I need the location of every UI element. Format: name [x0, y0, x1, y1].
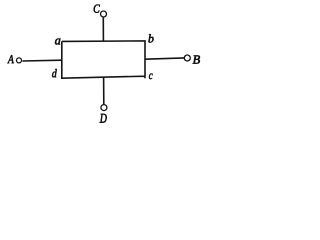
- terminal A circle: [17, 58, 22, 63]
- node C label: [94, 5, 100, 13]
- terminal C circle: [101, 11, 107, 17]
- wire A lead: [22, 59, 61, 62]
- node d label: [52, 69, 57, 77]
- terminal D circle: [101, 105, 107, 111]
- node A label: [7, 55, 14, 63]
- node b label: [148, 34, 153, 42]
- node B label: [193, 55, 200, 63]
- node c label: [149, 74, 153, 80]
- node D label: [100, 114, 107, 123]
- wire D lead: [103, 77, 105, 104]
- wire C lead: [102, 18, 104, 42]
- wire B lead: [145, 58, 184, 59]
- terminal B circle: [184, 55, 190, 61]
- node a label: [55, 39, 60, 45]
- network box (two-port rectangle a-b-c-d): [62, 41, 145, 78]
